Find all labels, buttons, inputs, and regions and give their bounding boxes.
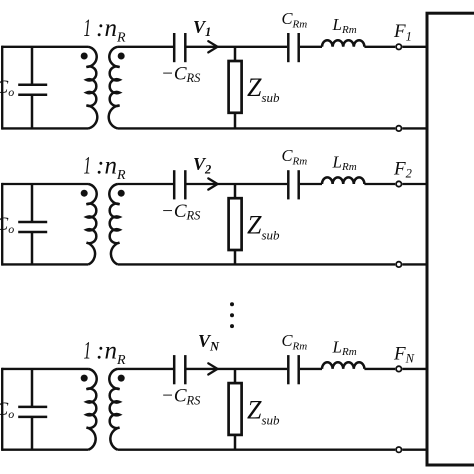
wire: node to Zsub top row 2 xyxy=(234,184,237,199)
wire: left source stub row 1 xyxy=(1,46,3,130)
capacitor -CRS row 1: left plate xyxy=(173,33,176,62)
wire: -CRS to Zsub node row 3 xyxy=(187,368,236,370)
load box (combined network, clipped at right edge) xyxy=(427,13,474,465)
wire: LRm to terminal F1 row 1 xyxy=(364,46,395,48)
transformer row 3: secondary polarity dot xyxy=(118,375,125,382)
transformer row 3: primary polarity dot xyxy=(81,375,88,382)
wire: return terminal to load box row 3 xyxy=(402,449,427,451)
capacitor -CRS row 3: right plate xyxy=(184,355,187,384)
capacitor -CRS row 2: right plate xyxy=(184,170,187,199)
wire: node to CRm row 1 xyxy=(235,46,287,48)
capacitor -CRS row 2: left plate xyxy=(173,170,176,199)
transformer row 3: secondary winding xyxy=(109,369,119,450)
transformer row 2: secondary polarity dot xyxy=(118,190,125,197)
wire: terminal F2 to load box row 2 xyxy=(402,183,427,185)
transformer row 2: primary winding xyxy=(87,184,97,264)
wire: secondary top to -CRS row 1 xyxy=(118,46,174,48)
capacitor Co row 2: bottom stem xyxy=(31,232,34,264)
capacitor Co row 3: bottom plate xyxy=(18,416,47,419)
capacitor CRm row 3: left plate xyxy=(287,355,290,384)
wire: -CRS to Zsub node row 1 xyxy=(187,46,236,48)
capacitor Co row 2: top plate xyxy=(18,221,47,224)
wire: node to CRm row 2 xyxy=(235,183,287,185)
capacitor CRm row 1: left plate xyxy=(287,33,290,62)
capacitor Co row 3: top plate xyxy=(18,406,47,409)
wire: return terminal to load box row 2 xyxy=(402,263,427,265)
impedance Zsub row 3: box xyxy=(229,383,242,435)
transformer row 1: secondary polarity dot xyxy=(118,53,125,60)
wire: node to Zsub top row 1 xyxy=(234,47,237,62)
capacitor Co row 1: top plate xyxy=(18,84,47,87)
wire: terminal FN to load box row 3 xyxy=(402,368,427,370)
wire: secondary bottom rail row 1 xyxy=(118,127,396,129)
inductor LRm row 1 xyxy=(322,40,364,47)
capacitor CRm row 2: left plate xyxy=(287,170,290,199)
arrow: V2 direction row 2 xyxy=(208,178,217,189)
transformer row 1: primary winding xyxy=(87,47,98,129)
capacitor Co row 2: top stem xyxy=(31,184,34,222)
transformer row 2: secondary winding xyxy=(109,184,119,264)
transformer row 2: primary polarity dot xyxy=(81,190,88,197)
wire: left source stub row 3 xyxy=(1,368,3,451)
wire: secondary top to -CRS row 2 xyxy=(118,183,174,185)
capacitor Co row 3: bottom stem xyxy=(31,417,34,450)
wire: Zsub bottom to bottom rail row 2 xyxy=(234,250,237,264)
capacitor Co row 2: bottom plate xyxy=(18,231,47,234)
wire: primary bottom rail row 2 xyxy=(2,263,88,265)
capacitor Co row 1: top stem xyxy=(31,47,34,85)
wire: left source stub row 2 xyxy=(1,183,3,266)
inductor LRm row 2 xyxy=(322,177,364,184)
wire: return terminal to load box row 1 xyxy=(402,127,427,129)
wire: LRm to terminal F2 row 2 xyxy=(364,183,395,185)
capacitor CRm row 1: right plate xyxy=(297,33,300,62)
capacitor Co row 3: top stem xyxy=(31,369,34,407)
capacitor -CRS row 3: left plate xyxy=(173,355,176,384)
transformer row 1: primary polarity dot xyxy=(81,53,88,60)
wire: Zsub bottom to bottom rail row 1 xyxy=(234,113,237,129)
terminal return node circle row 3 xyxy=(396,447,401,452)
arrow: V1 direction row 1 xyxy=(208,41,217,52)
wire: CRm to LRm row 1 xyxy=(300,46,322,48)
terminal return node circle row 2 xyxy=(396,262,401,267)
wire: secondary bottom rail row 3 xyxy=(118,449,396,451)
wire: primary bottom rail row 3 xyxy=(2,449,88,451)
capacitor Co row 1: bottom plate xyxy=(18,94,47,97)
terminal FN node circle row 3 xyxy=(396,366,401,371)
wire: terminal F1 to load box row 1 xyxy=(402,46,427,48)
capacitor -CRS row 1: right plate xyxy=(184,33,187,62)
wire: primary top rail row 2 xyxy=(2,183,88,185)
capacitor CRm row 3: right plate xyxy=(297,355,300,384)
wire: -CRS to Zsub node row 2 xyxy=(187,183,236,185)
wire: primary top rail row 3 xyxy=(2,368,88,370)
terminal F2 node circle row 2 xyxy=(396,181,401,186)
wire: primary top rail row 1 xyxy=(2,46,88,48)
wire: secondary top to -CRS row 3 xyxy=(118,368,174,370)
transformer row 3: primary winding xyxy=(87,369,97,450)
wire: Zsub bottom to bottom rail row 3 xyxy=(234,435,237,450)
wire: node to Zsub top row 3 xyxy=(234,369,237,384)
arrow: VN direction row 3 xyxy=(208,363,217,374)
terminal return node circle row 1 xyxy=(396,126,401,131)
transformer row 1: secondary winding xyxy=(109,47,120,129)
wire: secondary bottom rail row 2 xyxy=(118,263,396,265)
inductor LRm row 3 xyxy=(322,362,364,369)
wire: CRm to LRm row 3 xyxy=(300,368,322,370)
impedance Zsub row 2: box xyxy=(229,198,242,250)
terminal F1 node circle row 1 xyxy=(396,44,401,49)
wire: primary bottom rail row 1 xyxy=(2,127,88,129)
wire: CRm to LRm row 2 xyxy=(300,183,322,185)
capacitor Co row 1: bottom stem xyxy=(31,95,34,129)
impedance Zsub row 1: box xyxy=(229,61,242,113)
ellipsis: repeated stages dots xyxy=(230,302,234,306)
capacitor CRm row 2: right plate xyxy=(297,170,300,199)
wire: LRm to terminal FN row 3 xyxy=(364,368,395,370)
wire: node to CRm row 3 xyxy=(235,368,287,370)
